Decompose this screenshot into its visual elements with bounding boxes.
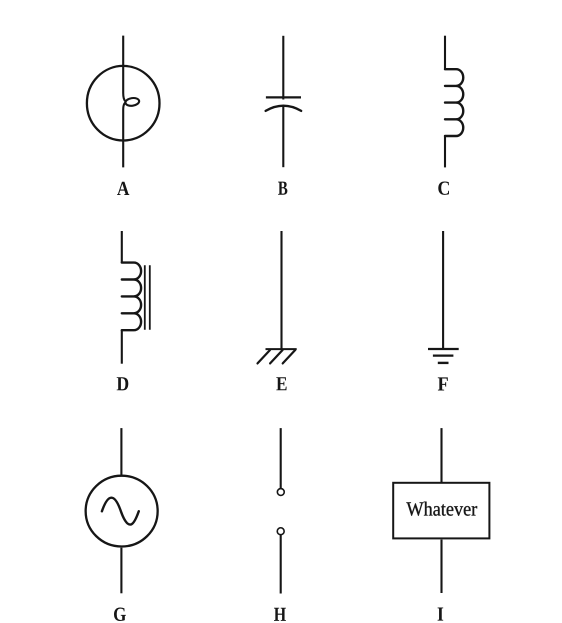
wire A top lead	[123, 36, 125, 102]
wire H bottom lead	[280, 535, 282, 594]
label F	[438, 377, 448, 390]
inductor D core line 2	[149, 265, 151, 330]
wire F lead	[442, 231, 444, 349]
inductor D turn stubs	[122, 280, 134, 314]
label I	[438, 608, 444, 621]
inductor C winding	[445, 69, 463, 136]
wire A bottom lead	[123, 103, 125, 168]
wire D bottom lead	[121, 330, 123, 364]
earth ground F bar 1	[428, 348, 459, 350]
wire I top lead	[440, 428, 442, 482]
capacitor B curved plate	[266, 106, 302, 111]
wire G bottom lead	[120, 548, 122, 594]
label H	[274, 608, 286, 621]
wire H top lead	[280, 428, 282, 489]
label D	[117, 377, 129, 390]
AC source G sine wave	[102, 498, 139, 525]
inductor C turn stubs	[445, 86, 456, 119]
wire C top lead	[444, 36, 446, 69]
block I box	[393, 483, 489, 539]
capacitor B top plate	[266, 96, 301, 98]
label E	[276, 377, 286, 390]
inductor D winding	[122, 263, 141, 331]
chassis ground E hatch 1	[258, 350, 271, 363]
inductor D core line 1	[144, 265, 146, 330]
lamp A circle	[87, 66, 160, 141]
wire I bottom lead	[440, 540, 442, 593]
label A	[117, 182, 129, 195]
label C	[438, 181, 449, 194]
chassis ground E hatch 2	[270, 350, 283, 363]
wire B bottom lead	[282, 106, 284, 167]
wire E lead	[280, 231, 282, 349]
label G	[114, 608, 126, 621]
wire B top lead	[282, 36, 284, 100]
contact H upper terminal	[277, 489, 284, 496]
wire C bottom lead	[444, 136, 446, 167]
wire D top lead	[121, 231, 123, 263]
AC source G circle	[86, 476, 158, 547]
lamp A filament loop	[125, 97, 140, 106]
block I text Whatever	[406, 502, 477, 516]
chassis ground E bar	[266, 348, 297, 350]
earth ground F bar 2	[433, 355, 454, 357]
contact H lower terminal	[277, 528, 284, 535]
chassis ground E hatch 3	[283, 350, 296, 363]
label B	[278, 182, 287, 195]
wire G top lead	[120, 428, 122, 475]
earth ground F bar 3	[438, 362, 449, 364]
